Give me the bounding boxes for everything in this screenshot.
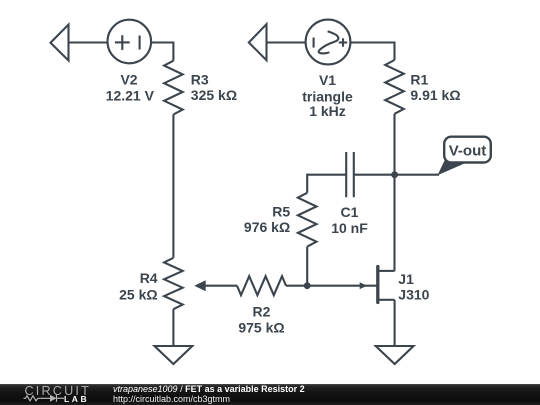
ground under JFET source <box>376 346 414 364</box>
wire R1 bottom to JFET drain elbow <box>393 114 395 271</box>
footer line 1 <box>113 384 305 394</box>
svg-text:10 nF: 10 nF <box>331 220 368 236</box>
svg-text:R4: R4 <box>140 270 158 286</box>
wire arrow A1 to V2 <box>69 41 108 43</box>
junction node at R2 / R5 / gate <box>304 282 311 289</box>
svg-text:V-out: V-out <box>449 143 487 160</box>
wire arrow A2 to V1 <box>267 41 306 43</box>
label C1 <box>331 204 368 236</box>
input flag arrow A2 (V1 input) <box>249 24 267 60</box>
label R2 <box>238 304 284 336</box>
svg-text:LAB: LAB <box>64 394 89 404</box>
label R5 <box>244 204 290 236</box>
footer bar <box>0 384 540 405</box>
resistor R5 <box>298 193 317 247</box>
wire R5 bottom to junction <box>306 247 308 286</box>
svg-text:R1: R1 <box>410 72 428 88</box>
svg-text:325 kΩ: 325 kΩ <box>191 87 237 103</box>
junction node at R1 / C1 / V-out <box>391 171 398 178</box>
svg-text:V2: V2 <box>120 72 137 88</box>
wire R3 bottom to R4 top <box>172 115 174 258</box>
JFET J1 source stub <box>379 299 395 301</box>
svg-text:R5: R5 <box>272 204 290 220</box>
wire V1 to R1 top <box>350 43 394 61</box>
wire source to ground <box>394 300 396 346</box>
wire R4 wiper to R2 <box>205 285 237 287</box>
label R1 <box>410 72 460 104</box>
svg-text:975 kΩ: 975 kΩ <box>238 320 284 336</box>
potentiometer R4 wiper arrow <box>194 280 205 291</box>
wire C1 to junction <box>354 174 395 176</box>
JFET J1 drain stub <box>379 270 395 272</box>
svg-text:C1: C1 <box>341 204 359 220</box>
svg-text:R2: R2 <box>253 304 271 320</box>
svg-text:12.21 V: 12.21 V <box>106 88 155 104</box>
input flag arrow A1 (V2 input) <box>51 25 69 61</box>
footer line 2 <box>113 394 230 404</box>
resistor R1 <box>385 60 404 114</box>
label R4 <box>119 270 158 302</box>
svg-text:9.91 kΩ: 9.91 kΩ <box>410 87 460 103</box>
svg-text:25 kΩ: 25 kΩ <box>119 287 157 303</box>
svg-text:J310: J310 <box>398 287 429 303</box>
svg-text:976 kΩ: 976 kΩ <box>244 219 290 235</box>
JFET J1 channel bar <box>376 267 379 303</box>
svg-text:1 kHz: 1 kHz <box>309 103 346 119</box>
resistor R2 <box>237 276 286 295</box>
resistor R3 <box>164 61 183 115</box>
net flag V-out box <box>444 137 491 163</box>
voltage source V2 <box>108 20 152 64</box>
potentiometer R4 <box>164 258 183 309</box>
wire V2 to R3 top <box>151 43 173 61</box>
label J1 <box>398 271 429 302</box>
wire R4 bottom to ground <box>172 309 174 346</box>
label V1 <box>302 72 353 119</box>
wire R2 to gate junction <box>286 285 307 287</box>
svg-text:V1: V1 <box>319 72 336 88</box>
CircuitLab logo <box>0 384 110 405</box>
JFET J1 gate arrow <box>360 282 367 289</box>
label R3 <box>191 72 237 104</box>
capacitor C1 <box>346 152 354 197</box>
ground under R4 <box>155 346 193 364</box>
voltage source V1 (function generator) <box>306 20 351 65</box>
label V2 <box>106 72 155 104</box>
svg-text:J1: J1 <box>398 271 414 287</box>
wire junction to JFET gate <box>307 285 376 287</box>
net flag V-out pointer <box>438 159 466 176</box>
wire junction to V-out pointer <box>395 174 439 176</box>
wire C1 row from R5 top <box>307 175 346 193</box>
svg-text:R3: R3 <box>191 72 209 88</box>
